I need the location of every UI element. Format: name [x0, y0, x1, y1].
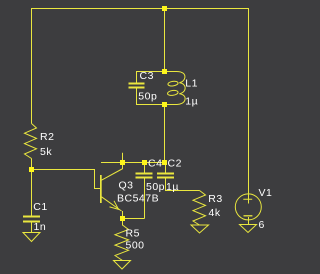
wire V1 bottom to ground: [248, 217, 250, 225]
inductor L1 loop 2: [167, 90, 178, 96]
resistor R2 zigzag: [25, 124, 37, 159]
ground under R3: [191, 225, 209, 233]
wire mid vertical tank to collector rail: [164, 105, 166, 163]
capacitor C3 plates: [129, 83, 145, 85]
svg-text:C3: C3: [140, 70, 154, 82]
wire C2 to R3: [165, 190, 200, 192]
wire base horizontal: [31, 169, 95, 171]
transistor Q3 emitter pin: [122, 211, 124, 219]
junction C4 top: [142, 160, 147, 165]
svg-text:4k: 4k: [209, 207, 221, 219]
junction tank top: [162, 69, 167, 74]
svg-text:V1: V1: [259, 187, 273, 199]
wire node base: R2/C1 junction to C1: [31, 169, 33, 216]
svg-text:L1: L1: [185, 78, 198, 90]
ground under C1: [23, 233, 40, 242]
svg-text:5k: 5k: [40, 146, 52, 158]
transistor Q3 emitter arrow: [110, 201, 119, 210]
svg-text:6: 6: [259, 219, 265, 231]
capacitor C2 plates: [157, 173, 174, 175]
wire tank bottom rail: [136, 104, 165, 106]
transistor Q3 base bar: [100, 175, 102, 203]
wire emitter junction to R5: [122, 219, 124, 226]
ground under R5: [114, 261, 131, 270]
svg-text:C2: C2: [168, 158, 182, 170]
svg-text:R2: R2: [40, 131, 54, 143]
svg-text:C1: C1: [33, 201, 47, 213]
resistor R3 zigzag: [193, 191, 206, 226]
wire emitter horizontal: [122, 218, 145, 220]
svg-text:R3: R3: [208, 193, 222, 205]
svg-text:C4: C4: [148, 158, 162, 170]
svg-text:1µ: 1µ: [185, 96, 198, 108]
svg-text:500: 500: [126, 240, 145, 252]
junction collector: [120, 160, 125, 165]
capacitor C4 plates: [136, 173, 153, 175]
wire R2 bottom stub: [31, 159, 33, 170]
wire C2 bottom vertical: [165, 178, 167, 191]
capacitor C4 stub top: [144, 162, 146, 173]
svg-text:1n: 1n: [34, 221, 47, 233]
junction R2/C1/base: [29, 167, 34, 172]
wire left vertical: [31, 8, 33, 124]
wire C1 to ground: [31, 222, 33, 233]
wire base lead: [94, 188, 100, 190]
source V1 plus sign: [243, 196, 252, 204]
transistor Q3 collector pin: [122, 153, 124, 170]
svg-text:Q3: Q3: [119, 179, 134, 191]
transistor Q3 collector diagonal: [102, 169, 123, 180]
svg-text:50p: 50p: [146, 181, 165, 193]
svg-text:50p: 50p: [138, 91, 157, 103]
transistor Q3 emitter diagonal: [102, 197, 122, 211]
inductor L1 coil: [165, 72, 186, 105]
capacitor C3 stubs: [136, 71, 138, 83]
svg-text:BC547B: BC547B: [117, 192, 159, 204]
wire top rail: [31, 8, 249, 10]
wire C4 bottom vertical: [144, 178, 146, 219]
junction tank bottom: [162, 102, 167, 107]
junction C2 top: [162, 160, 167, 165]
wire V1 vertical from top rail: [248, 8, 250, 196]
junction emitter: [120, 216, 125, 221]
wire base vertical: [94, 169, 96, 189]
wire tank top rail: [136, 71, 165, 73]
capacitor C2 stub top: [165, 162, 167, 173]
wire collector rail: [101, 162, 165, 164]
svg-text:R5: R5: [126, 228, 140, 240]
resistor R5 zigzag: [115, 225, 129, 261]
ground under V1: [240, 225, 257, 233]
capacitor C1 plates: [23, 216, 40, 218]
svg-text:1µ: 1µ: [166, 181, 179, 193]
source V1 minus sign: [244, 215, 253, 217]
inductor L1 loop 1: [168, 81, 179, 87]
source V1 circle: [235, 194, 261, 220]
junction top rail: [162, 6, 167, 11]
wire top feed to tank: [164, 8, 166, 72]
